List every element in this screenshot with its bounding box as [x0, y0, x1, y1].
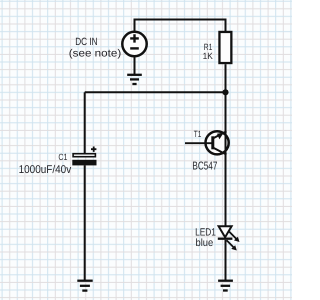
svg-text:1000uF/40v: 1000uF/40v	[19, 164, 72, 176]
DC source V1	[122, 32, 146, 56]
wire: C1 bottom to ground	[84, 165, 86, 280]
ground GND3	[218, 281, 233, 291]
transistor T1 body	[206, 131, 229, 154]
T1 base lead	[185, 142, 213, 144]
minus terminal mark	[130, 47, 139, 49]
svg-text:1K: 1K	[203, 51, 213, 61]
LED1 cathode bar	[218, 238, 233, 240]
wire: junction through transistor to LED	[225, 92, 227, 130]
wire top: DC+ to R1 top	[135, 20, 226, 32]
capacitor C1	[73, 154, 95, 157]
wire: junction to C1 (horizontal)	[85, 91, 226, 93]
resistor R1	[219, 32, 231, 63]
svg-text:blue: blue	[196, 237, 214, 249]
junction node	[222, 89, 228, 95]
LED1 triangle	[219, 226, 232, 237]
svg-text:BC547: BC547	[192, 160, 217, 172]
wire: DC- to ground	[134, 57, 136, 74]
plus terminal mark	[130, 34, 139, 42]
ground GND2	[77, 281, 92, 291]
LED1 emission arrow 1	[229, 232, 236, 239]
ground GND1	[127, 75, 142, 84]
wire through transistor (collector-emitter vertical)	[225, 130, 227, 227]
C1 plus mark	[91, 147, 96, 152]
wire: R1 bottom to junction	[225, 64, 227, 92]
T1 base bar	[211, 136, 214, 149]
LED1 emission arrow 2	[227, 240, 234, 247]
T1 emitter diagonal	[213, 148, 227, 155]
wire: corner down to C1 top	[84, 92, 86, 153]
svg-text:(see note): (see note)	[69, 47, 121, 59]
svg-text:C1: C1	[58, 152, 67, 162]
svg-text:DC IN: DC IN	[75, 36, 97, 48]
T1 collector diagonal with arrow	[213, 131, 227, 138]
svg-text:T1: T1	[194, 129, 202, 139]
wire: LED to ground	[225, 240, 227, 280]
